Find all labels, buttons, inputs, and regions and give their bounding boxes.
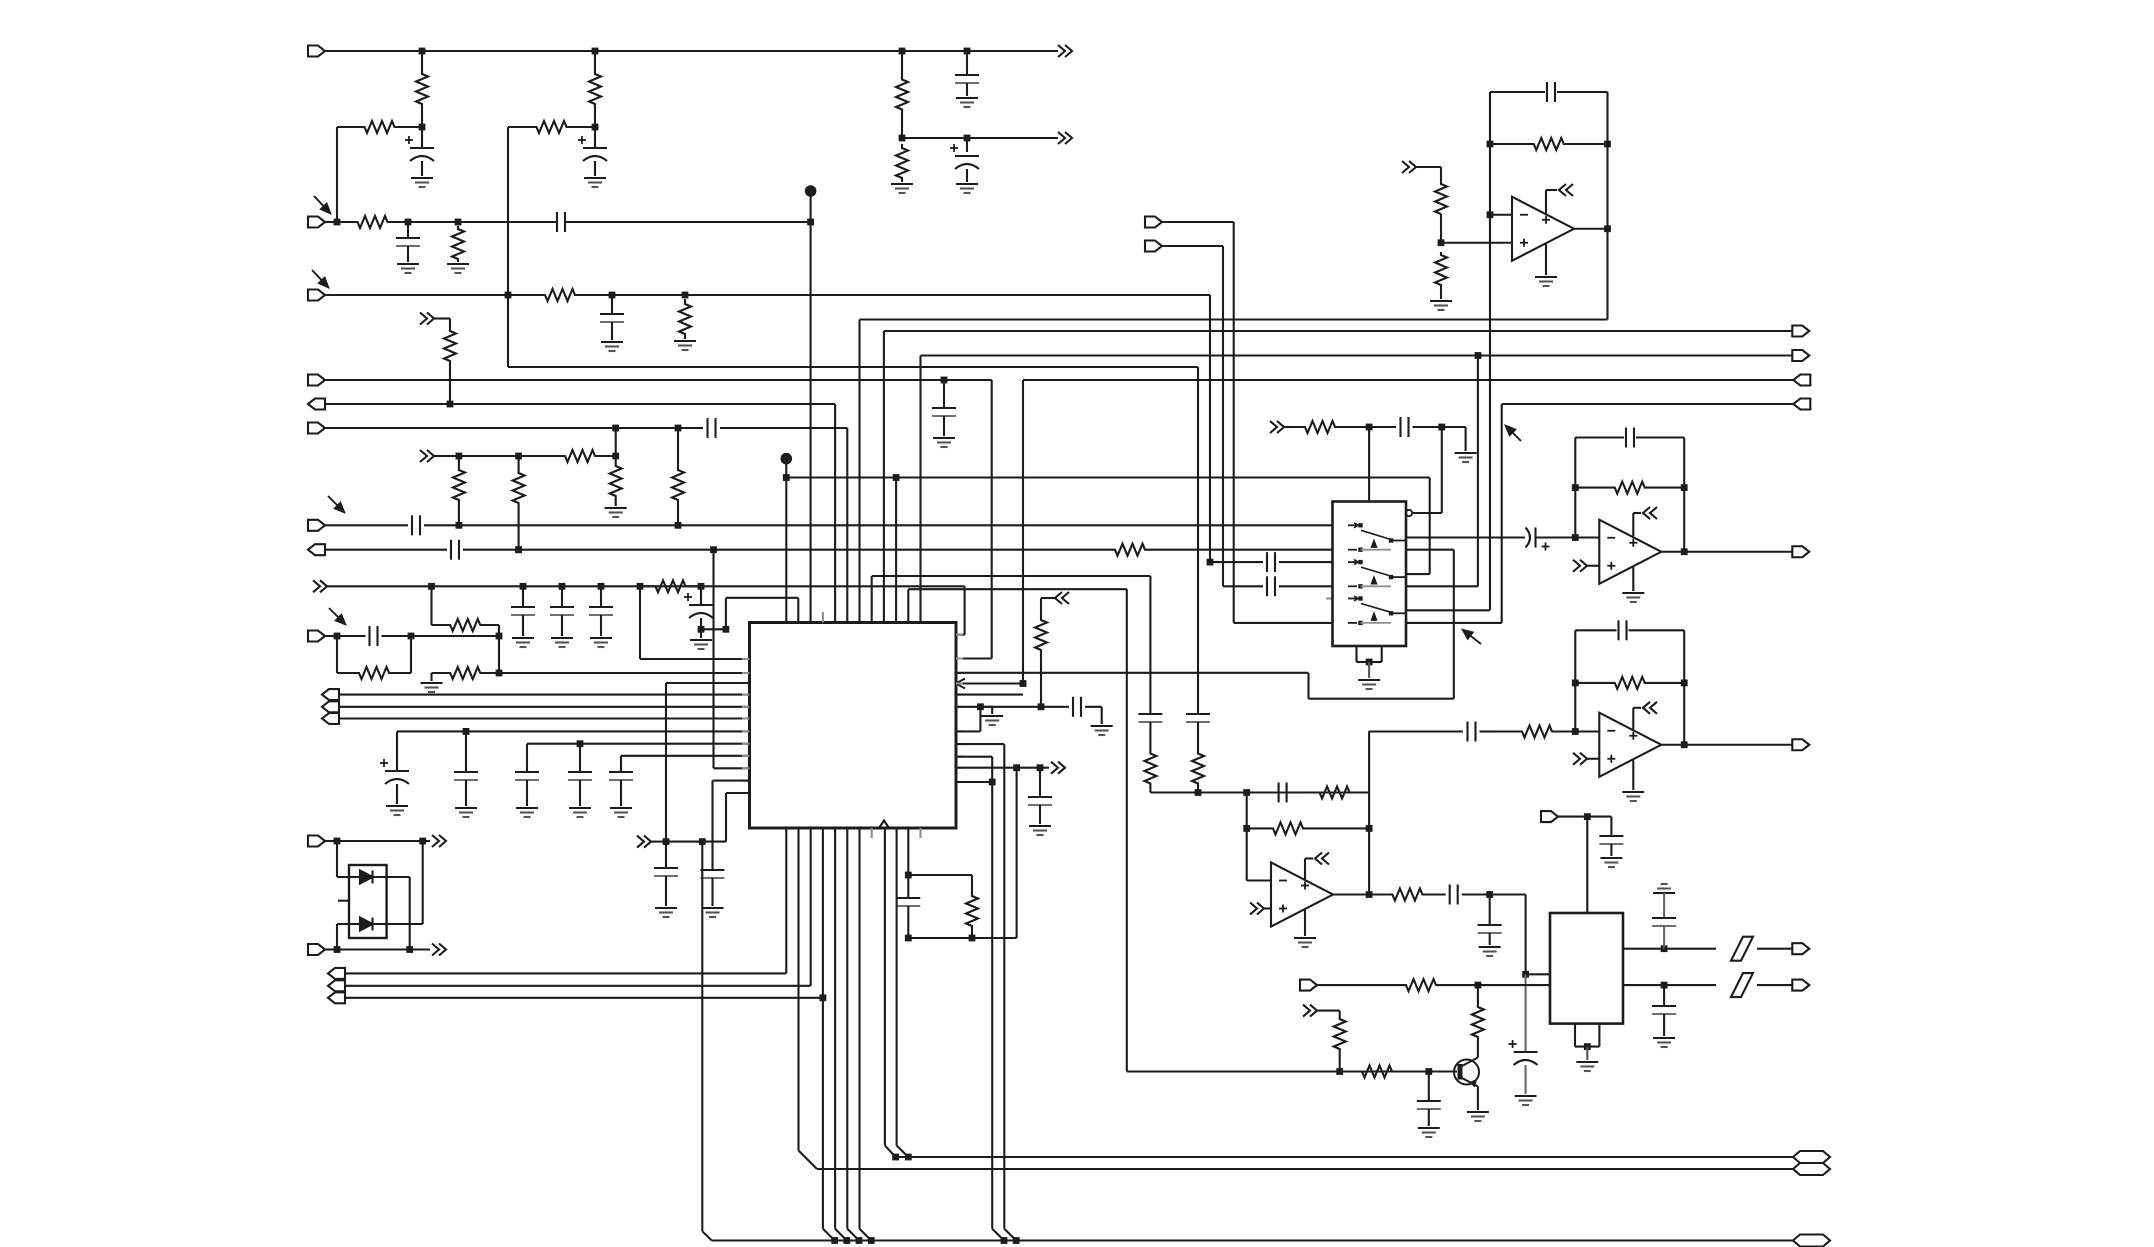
loop wire xyxy=(1574,438,1576,538)
wire xyxy=(1587,565,1599,567)
wire (to bottom bus) xyxy=(701,842,703,1232)
junction xyxy=(1604,141,1611,148)
junction xyxy=(455,219,462,226)
junction xyxy=(515,453,522,460)
capacitor C21 xyxy=(609,771,633,773)
switch S1 input stub xyxy=(1348,524,1357,526)
ground xyxy=(891,183,913,185)
wire xyxy=(1536,536,1575,538)
wire xyxy=(339,706,750,708)
connector J10 body xyxy=(322,689,339,700)
capacitor C41 xyxy=(1652,1005,1676,1007)
ferrite bead FB1 xyxy=(1731,937,1753,961)
annotation arrow xyxy=(1470,636,1481,644)
wire xyxy=(1684,551,1792,553)
ground xyxy=(1430,300,1452,302)
>> arrow xyxy=(1058,45,1065,57)
wire (net295 to switch) xyxy=(1210,561,1263,563)
connector J4 body xyxy=(308,375,325,386)
junction xyxy=(1661,982,1668,989)
capacitor C26 xyxy=(1266,576,1268,596)
resistor R26 xyxy=(1292,421,1369,433)
capacitor C22 xyxy=(701,869,725,871)
ground xyxy=(690,639,712,641)
ground (inverted) xyxy=(1661,883,1668,885)
op-amp U5 xyxy=(1599,520,1661,584)
wire xyxy=(1291,791,1300,793)
junction xyxy=(1681,548,1688,555)
wire xyxy=(1264,907,1271,909)
wire xyxy=(1455,984,1550,986)
junction xyxy=(710,546,717,553)
wire xyxy=(507,127,509,367)
junction xyxy=(1584,1043,1591,1050)
wire xyxy=(611,322,613,340)
<< arrow xyxy=(1643,507,1650,519)
resistor R8 xyxy=(452,226,464,262)
capacitor C42 xyxy=(1417,1100,1441,1102)
junction xyxy=(592,124,599,131)
junction xyxy=(1037,764,1044,771)
wire xyxy=(1663,893,1665,918)
wire xyxy=(1304,859,1306,880)
resistor R6 xyxy=(896,144,908,182)
stub pin xyxy=(742,780,750,782)
resistor R33 xyxy=(1300,787,1369,799)
wire xyxy=(797,828,799,1151)
junction xyxy=(1366,659,1373,666)
junction xyxy=(1020,680,1027,687)
connector K9 body xyxy=(1792,739,1809,750)
ground xyxy=(397,263,419,265)
connector K3 body xyxy=(1792,326,1809,337)
>> arrow xyxy=(637,836,644,848)
wire xyxy=(579,744,581,772)
resistor R17 xyxy=(1100,544,1160,556)
wire xyxy=(1490,91,1545,93)
op-amp U6 xyxy=(1599,713,1661,777)
wire xyxy=(600,586,602,607)
connector K11 body xyxy=(1792,980,1809,991)
junction xyxy=(592,48,599,55)
>> arrow xyxy=(1051,762,1058,774)
stub pin xyxy=(742,706,750,708)
junction xyxy=(1243,789,1250,796)
stub pin xyxy=(919,828,921,838)
connector J19 body xyxy=(1145,241,1162,252)
junction xyxy=(612,425,619,432)
wire xyxy=(1039,805,1041,824)
wire xyxy=(1663,985,1665,1006)
capacitor C34 xyxy=(1466,722,1468,742)
wire xyxy=(907,875,909,898)
junction xyxy=(419,124,426,131)
junction xyxy=(1438,239,1445,246)
wire xyxy=(396,784,398,804)
annotation arrow xyxy=(314,196,324,206)
shield dot D4 xyxy=(781,453,793,465)
wire (net to switch A2) xyxy=(1209,295,1211,562)
switch U2 enable bubble xyxy=(1406,510,1412,516)
wire (row 744 to IC) xyxy=(527,743,750,745)
wire xyxy=(1317,984,1386,986)
junction xyxy=(419,48,426,55)
junction xyxy=(609,292,616,299)
switch S3 blade xyxy=(1361,604,1391,613)
stub pin xyxy=(956,694,963,696)
loop wire xyxy=(1683,630,1685,744)
diode block U3 outline xyxy=(349,865,387,938)
connector K8 body xyxy=(1792,546,1809,557)
wire xyxy=(956,767,1049,769)
capacitor C31 xyxy=(1546,82,1548,102)
wire (row 731 to IC) xyxy=(397,730,750,732)
junction xyxy=(1038,703,1045,710)
wire xyxy=(1440,288,1442,299)
capacitor C13 xyxy=(550,606,574,608)
>> arrow xyxy=(432,944,439,956)
wire xyxy=(1462,893,1490,895)
junction xyxy=(456,522,463,529)
wire xyxy=(1304,910,1306,936)
junction xyxy=(419,838,426,845)
wire xyxy=(1149,576,1151,714)
wire xyxy=(325,549,447,551)
wire xyxy=(701,628,726,630)
wire xyxy=(1684,744,1792,746)
junction xyxy=(675,522,682,529)
stub pin xyxy=(956,743,963,745)
junction xyxy=(964,135,971,142)
>> arrow xyxy=(1270,421,1277,433)
wire xyxy=(1441,242,1512,244)
wire (to IC pin) xyxy=(499,672,750,674)
ground xyxy=(1294,937,1316,939)
switch S2 pole dot xyxy=(1389,575,1393,579)
junction xyxy=(723,626,730,633)
wire xyxy=(600,615,602,636)
switch S3 input2 stub xyxy=(1348,622,1357,624)
wire xyxy=(1490,214,1512,216)
wire xyxy=(1587,758,1599,760)
connector K6 body xyxy=(1793,1151,1830,1163)
connector J6 body xyxy=(308,423,325,434)
>> arrow xyxy=(432,835,439,847)
resistor R7 xyxy=(337,216,408,228)
wire xyxy=(325,427,616,429)
diode D3 xyxy=(360,918,373,931)
loop wire xyxy=(1683,438,1685,552)
junction xyxy=(612,453,619,460)
wire xyxy=(702,1231,711,1240)
IC U1 bottom-edge marker xyxy=(879,821,889,829)
ground xyxy=(551,637,573,639)
wire xyxy=(1160,549,1333,551)
wire xyxy=(810,196,812,222)
wire xyxy=(956,756,992,758)
wire xyxy=(1406,536,1525,538)
wire xyxy=(956,694,1023,696)
wire xyxy=(907,828,909,875)
wire xyxy=(407,222,409,238)
junction xyxy=(1661,945,1668,952)
resistor R24 xyxy=(1144,753,1156,784)
wire xyxy=(434,317,450,319)
wire xyxy=(1442,426,1466,428)
resistor R4 xyxy=(337,121,422,133)
stub pin xyxy=(742,672,750,674)
wire (right segment of row 380) xyxy=(1023,379,1793,381)
capacitor C44 xyxy=(1028,796,1052,798)
annotation arrow xyxy=(312,270,322,280)
junction xyxy=(699,838,706,845)
stub pin xyxy=(956,730,963,732)
wire xyxy=(616,427,678,429)
stub pin xyxy=(956,767,963,769)
resistor R11 xyxy=(444,327,456,404)
ground xyxy=(1418,1127,1440,1129)
junction xyxy=(989,779,996,786)
wire xyxy=(1428,1072,1430,1102)
wire xyxy=(1197,367,1199,714)
resistor R1 xyxy=(416,51,428,127)
>> arrow xyxy=(1250,903,1257,915)
stub pin xyxy=(956,657,963,659)
junction xyxy=(893,474,900,481)
wire xyxy=(907,906,909,938)
wire xyxy=(1757,984,1792,986)
wire (net to IC pin) xyxy=(712,550,714,769)
stub pin xyxy=(956,706,963,708)
resistor R35 xyxy=(1369,889,1446,901)
junction xyxy=(905,872,912,879)
stub pin xyxy=(871,828,873,838)
wire xyxy=(846,428,848,623)
junction xyxy=(905,935,912,942)
IC U1 body xyxy=(750,623,957,829)
wire xyxy=(666,682,750,684)
ground xyxy=(1622,791,1644,793)
wire xyxy=(1574,1024,1576,1047)
ground xyxy=(655,907,677,909)
capacitor C7 xyxy=(600,313,624,315)
wire xyxy=(943,416,945,436)
wire xyxy=(612,294,685,296)
wire xyxy=(964,586,966,634)
wire xyxy=(458,221,557,223)
wire xyxy=(834,404,836,623)
wire xyxy=(966,83,968,96)
connector J7 body xyxy=(308,520,325,531)
wire xyxy=(666,841,702,843)
capacitor C5 xyxy=(396,237,420,239)
ground xyxy=(933,437,955,439)
wire net589 xyxy=(908,588,1127,590)
wire xyxy=(421,161,423,176)
switch S1 blade xyxy=(1361,530,1391,539)
wire xyxy=(1490,893,1526,895)
ground xyxy=(569,807,591,809)
>> arrow xyxy=(1573,560,1580,572)
wire xyxy=(1606,92,1608,320)
wire xyxy=(919,356,921,623)
wire xyxy=(463,549,1100,551)
junction xyxy=(977,703,984,710)
capacitor C27 xyxy=(1266,552,1268,572)
junction xyxy=(447,401,454,408)
wire xyxy=(345,985,811,987)
wire xyxy=(966,169,968,182)
resistor R20 xyxy=(337,667,411,679)
junction xyxy=(520,583,527,590)
wire xyxy=(1307,673,1309,699)
connector J9 body xyxy=(308,631,325,642)
capacitor C1 xyxy=(955,74,979,76)
capacitor C38 (polarized) xyxy=(1514,1051,1538,1053)
resistor R16 xyxy=(672,458,684,512)
stub (block mid pin) xyxy=(338,900,349,902)
wire xyxy=(1222,246,1224,586)
capacitor C15 (polarized) xyxy=(689,604,713,606)
ground xyxy=(386,805,408,807)
wire xyxy=(1279,585,1333,587)
wire net477 xyxy=(786,476,1429,478)
junction xyxy=(1195,789,1202,796)
resistor R29 xyxy=(1435,252,1447,288)
junction xyxy=(1522,971,1529,978)
ground xyxy=(584,177,606,179)
switch S1 input2 stub xyxy=(1348,549,1357,551)
junction xyxy=(1487,211,1494,218)
wire xyxy=(526,780,528,806)
wire xyxy=(1406,609,1490,611)
IC input arrow pin xyxy=(956,679,965,689)
wire xyxy=(700,629,702,638)
junction xyxy=(1487,141,1494,148)
ground xyxy=(956,97,978,99)
capacitor C37 xyxy=(1478,924,1502,926)
junction xyxy=(406,946,413,953)
junction xyxy=(456,453,463,460)
junction xyxy=(1425,1068,1432,1075)
wire xyxy=(1574,228,1608,230)
capacitor C33 xyxy=(1617,620,1619,640)
wire xyxy=(1623,984,1664,986)
<< arrow xyxy=(1559,184,1566,196)
wire xyxy=(1480,730,1496,732)
ferrite bead FB2 xyxy=(1731,973,1753,997)
junction xyxy=(856,1237,863,1244)
junction xyxy=(820,994,827,1001)
resistor R31 xyxy=(1575,677,1684,689)
connector K10 body xyxy=(1792,943,1809,954)
resistor R10 xyxy=(679,299,691,339)
wire xyxy=(979,707,981,732)
ground xyxy=(512,637,534,639)
wire xyxy=(1586,817,1588,913)
wire xyxy=(1489,895,1491,926)
resistor R36 xyxy=(1334,1018,1346,1050)
ground xyxy=(674,340,696,342)
wire xyxy=(1279,561,1333,563)
junction xyxy=(1572,680,1579,687)
resistor R5 xyxy=(508,121,595,133)
wire xyxy=(725,793,727,842)
resistor R12 xyxy=(519,450,616,462)
resistor R21 xyxy=(432,667,500,679)
wire xyxy=(834,828,836,1229)
bus wire B3 xyxy=(712,1239,1793,1241)
junction xyxy=(334,838,341,845)
stub pin xyxy=(1326,597,1333,599)
wire xyxy=(1039,768,1041,797)
wire xyxy=(1149,784,1151,793)
wire xyxy=(561,615,563,636)
junction xyxy=(1366,825,1373,832)
capacitor C17 (polarized) xyxy=(385,770,409,772)
wire xyxy=(956,672,1309,674)
wire xyxy=(1041,706,1069,708)
wire xyxy=(337,840,423,842)
wire xyxy=(522,586,524,607)
wire xyxy=(980,706,992,708)
resistor R39 xyxy=(1386,979,1455,991)
wire xyxy=(1355,646,1357,662)
junction xyxy=(1366,424,1373,431)
wire xyxy=(339,717,750,719)
capacitor C19 xyxy=(515,771,539,773)
stub pin xyxy=(956,781,963,783)
capacitor C6 xyxy=(556,212,558,232)
junction xyxy=(1584,813,1591,820)
wire xyxy=(325,403,835,405)
annotation arrow xyxy=(1512,432,1521,441)
wire xyxy=(1333,893,1369,895)
switch S2 pole lead xyxy=(1391,576,1406,578)
wire xyxy=(408,221,458,223)
capacitor C32 xyxy=(1625,428,1627,448)
wire xyxy=(337,948,410,950)
connector J20 body xyxy=(1541,811,1558,822)
ground xyxy=(1479,946,1501,948)
switch S3 actuator arrow xyxy=(1373,616,1375,621)
<< arrow xyxy=(1055,592,1062,604)
wire net589 down xyxy=(1126,589,1128,1071)
resistor R37 xyxy=(1345,1066,1425,1078)
ground xyxy=(421,682,443,684)
wire xyxy=(1489,933,1491,945)
wire xyxy=(1197,722,1199,753)
wire xyxy=(956,781,992,783)
capacitor C11 xyxy=(450,540,452,560)
resistor R27 xyxy=(1490,138,1608,150)
wire xyxy=(1246,828,1248,880)
junction xyxy=(515,546,522,553)
junction xyxy=(663,838,670,845)
ground xyxy=(1622,592,1644,594)
ground xyxy=(1535,276,1557,278)
junction xyxy=(505,292,512,299)
wire xyxy=(336,841,338,877)
wire xyxy=(1004,1229,1016,1241)
wire xyxy=(498,625,500,636)
resistor R38 xyxy=(1472,1006,1484,1038)
junction xyxy=(682,292,689,299)
junction xyxy=(405,219,412,226)
wire xyxy=(1663,926,1665,949)
junction xyxy=(1336,1068,1343,1075)
connector J18 body xyxy=(1145,217,1162,228)
